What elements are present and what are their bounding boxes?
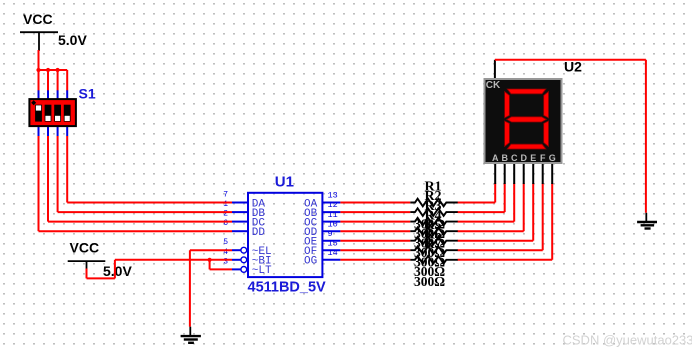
- resistor R1: [410, 199, 458, 207]
- U1 pin 1 DB stub: [232, 211, 248, 213]
- U1 pin 11 OC stub: [322, 221, 340, 223]
- wire branch to ~LT: [210, 268, 232, 270]
- U1 pin 7 DA stub: [232, 202, 248, 204]
- resistor R7: [410, 256, 458, 264]
- svg-text:S1: S1: [79, 86, 96, 102]
- display segment B: [544, 92, 549, 118]
- wire S1 pin4 to U1: [67, 202, 232, 204]
- svg-text:2: 2: [223, 210, 228, 219]
- display pin stub A: [494, 164, 496, 185]
- svg-text:VCC: VCC: [70, 240, 100, 256]
- svg-text:A: A: [492, 153, 499, 163]
- resistor value 300ohm R5: [414, 255, 445, 270]
- display U2 CK pin stub: [494, 60, 496, 79]
- U1 pin 10 OD stub: [322, 230, 340, 232]
- resistor label R7: [424, 237, 441, 252]
- power VCC source bottom: [68, 240, 133, 280]
- op IC U1 4511BD_5V body: [248, 193, 322, 277]
- ground symbol right: [637, 213, 657, 229]
- resistor R6: [410, 246, 458, 254]
- U1 pin number 14: [328, 248, 338, 258]
- DIP switch S1: [29, 99, 76, 126]
- wire S1 pin2 vertical: [47, 136, 49, 222]
- wire R5 to display pin E: [458, 183, 534, 240]
- svg-text:CSDN @yuewutao233: CSDN @yuewutao233: [563, 333, 692, 348]
- wire branch down: [209, 260, 211, 270]
- svg-text:7: 7: [223, 191, 228, 200]
- svg-text:15: 15: [328, 238, 338, 248]
- label S1: [79, 86, 96, 102]
- svg-text:C: C: [511, 153, 518, 163]
- U1 pin name OB: [304, 208, 318, 220]
- resistor label R2: [424, 189, 441, 204]
- resistor value 300ohm R1: [414, 217, 445, 232]
- S1 pin stub top 4: [66, 90, 68, 98]
- U1 pin name ~BI: [252, 256, 272, 268]
- svg-text:U1: U1: [275, 174, 294, 191]
- U1 pin name OD: [304, 227, 318, 239]
- display segment G: [507, 117, 547, 122]
- U1 pin name DB: [252, 208, 266, 220]
- display pin stub E: [532, 164, 534, 185]
- display pin stub C: [513, 164, 515, 185]
- U1 pin 12 OB stub: [322, 211, 340, 213]
- svg-text:6: 6: [223, 219, 228, 228]
- U1 pin 2 DC stub: [232, 221, 248, 223]
- S1 pin stub top 1: [38, 90, 40, 98]
- svg-text:B: B: [501, 153, 508, 163]
- junction node ~BI/~LT: [208, 258, 212, 262]
- wire U1 OD to R4: [340, 230, 410, 232]
- U1 pin 13 OA stub: [322, 202, 340, 204]
- U1 pin number 7: [223, 191, 228, 200]
- label 4511BD_5V: [248, 280, 327, 296]
- svg-text:13: 13: [328, 191, 338, 201]
- wire R7 to display pin G: [458, 183, 553, 259]
- resistor value 300ohm R2: [414, 226, 445, 241]
- U1 pin number 9: [328, 229, 333, 239]
- junction: [36, 68, 40, 72]
- U1 pin 5 ~EL stub with bubble: [232, 247, 247, 253]
- resistor label R3: [424, 199, 441, 214]
- U1 pin name OG: [304, 256, 317, 268]
- svg-text:5: 5: [223, 238, 228, 247]
- U1 pin number 12: [328, 200, 338, 210]
- resistor value 300ohm R3: [414, 236, 445, 251]
- wire S1 top feed 1: [38, 70, 40, 91]
- U1 pin 6 DD stub: [232, 230, 248, 232]
- resistor label R1: [424, 180, 441, 195]
- wire S1 pin1 to U1: [39, 230, 233, 232]
- U1 pin number 6: [223, 219, 228, 228]
- wire U1 OA to R1: [340, 202, 410, 204]
- U1 pin 9 OE stub: [322, 240, 340, 242]
- svg-text:12: 12: [328, 200, 338, 210]
- power VCC source top: [20, 11, 87, 51]
- wire VCC branch horizontal: [39, 69, 68, 71]
- display pin stub F: [542, 164, 544, 185]
- U1 pin 14 OG stub: [322, 259, 340, 261]
- resistor value 300ohm R7: [414, 274, 445, 289]
- svg-text:D: D: [520, 153, 527, 163]
- label U1: [275, 174, 294, 191]
- svg-text:OG: OG: [304, 256, 317, 268]
- display segment F: [505, 92, 510, 118]
- resistor R5: [410, 237, 458, 245]
- S1 pin stub bottom 2: [47, 127, 49, 136]
- wire S1 pin1 vertical: [38, 136, 40, 231]
- svg-text:CK: CK: [486, 80, 501, 91]
- U1 pin name DC: [252, 217, 266, 229]
- junction: [56, 68, 60, 72]
- svg-text:5.0V: 5.0V: [58, 32, 87, 48]
- svg-text:~LT: ~LT: [252, 265, 272, 277]
- S1 pin stub top 2: [47, 90, 49, 98]
- wire ~EL to ground riser: [190, 249, 232, 251]
- wire VCC2 horizontal low: [87, 277, 115, 279]
- wire VCC2 to ~BI: [115, 259, 232, 261]
- svg-text:U2: U2: [564, 59, 582, 75]
- U1 pin number 3: [223, 257, 228, 266]
- U1 pin 3 ~LT stub with bubble: [232, 267, 247, 273]
- wire CK to ground top: [495, 59, 646, 61]
- junction: [46, 68, 50, 72]
- svg-text:3: 3: [223, 257, 228, 266]
- wire U1 OG to R7: [340, 259, 410, 261]
- svg-text:DD: DD: [252, 227, 266, 239]
- display pin stub D: [523, 164, 525, 185]
- svg-text:G: G: [549, 153, 556, 163]
- svg-text:R7: R7: [424, 237, 441, 252]
- resistor value 300ohm R4: [414, 245, 445, 260]
- resistor R3: [410, 218, 458, 226]
- U1 pin name ~EL: [252, 246, 272, 258]
- wire U1 OC to R3: [340, 221, 410, 223]
- U1 pin number 2: [223, 210, 228, 219]
- wire R6 to display pin F: [458, 183, 543, 250]
- resistor value 300ohm R6: [414, 264, 445, 279]
- svg-text:9: 9: [328, 229, 333, 239]
- wire VCC2 stem: [86, 269, 88, 279]
- U1 pin name OE: [304, 237, 318, 249]
- wire R3 to display pin C: [458, 183, 515, 221]
- wire R1 to display pin A: [458, 183, 496, 202]
- S1 pin stub top 3: [57, 90, 59, 98]
- U1 pin number 11: [328, 210, 338, 220]
- svg-text:F: F: [540, 153, 546, 163]
- S1 pin stub bottom 1: [38, 127, 40, 136]
- display segment A: [507, 89, 546, 94]
- svg-text:4511BD_5V: 4511BD_5V: [248, 280, 327, 296]
- U1 pin number 1: [223, 200, 228, 209]
- S1 pin stub bottom 3: [57, 127, 59, 136]
- svg-text:4: 4: [223, 248, 228, 257]
- svg-text:300Ω: 300Ω: [414, 274, 445, 289]
- wire U1 OB to R2: [340, 211, 410, 213]
- U1 pin name OA: [304, 198, 318, 210]
- U1 pin number 15: [328, 238, 338, 248]
- display segment D: [507, 144, 546, 149]
- wire S1 pin3 to U1: [58, 211, 232, 213]
- svg-text:11: 11: [328, 210, 338, 220]
- wire S1 top feed 2: [47, 70, 49, 91]
- resistor label R5: [424, 218, 441, 233]
- wire R4 to display pin D: [458, 183, 524, 231]
- wire S1 pin2 to U1: [48, 221, 232, 223]
- resistor label R6: [424, 227, 441, 242]
- wire S1 top feed 4: [66, 70, 68, 91]
- resistor R2: [410, 208, 458, 216]
- display pin stub G: [551, 164, 553, 185]
- watermark: [563, 333, 692, 348]
- display pin stub B: [504, 164, 506, 185]
- resistor label R4: [424, 208, 441, 223]
- svg-text:14: 14: [328, 248, 338, 258]
- U1 pin name OC: [304, 217, 318, 229]
- U1 pin name DD: [252, 227, 266, 239]
- U1 pin number 10: [328, 219, 338, 229]
- wire S1 pin3 vertical: [57, 136, 59, 212]
- display segment E: [505, 121, 510, 146]
- svg-text:5.0V: 5.0V: [103, 263, 132, 279]
- U1 pin number 13: [328, 191, 338, 201]
- svg-text:E: E: [530, 153, 536, 163]
- wire ground drop right: [645, 60, 647, 213]
- U1 pin 4 ~BI stub with bubble: [232, 257, 247, 263]
- wire S1 top feed 3: [57, 70, 59, 91]
- wire R2 to display pin B: [458, 183, 505, 212]
- U1 pin name DA: [252, 198, 266, 210]
- U1 pin number 5: [223, 238, 228, 247]
- wire VCC stem to S1: [38, 50, 40, 70]
- svg-text:VCC: VCC: [23, 11, 53, 27]
- ground symbol left: [181, 327, 201, 343]
- U1 pin name ~LT: [252, 265, 272, 277]
- wire VCC2 riser: [114, 260, 116, 279]
- U1 pin name OF: [304, 246, 317, 258]
- display segment C: [544, 121, 549, 146]
- label U2: [564, 59, 582, 75]
- wire S1 pin4 vertical: [66, 136, 68, 203]
- U1 pin number 4: [223, 248, 228, 257]
- wire U1 OE to R5: [340, 240, 410, 242]
- resistor R4: [410, 227, 458, 235]
- svg-text:10: 10: [328, 219, 338, 229]
- S1 pin stub bottom 4: [66, 127, 68, 136]
- svg-text:1: 1: [223, 200, 228, 209]
- wire U1 OF to R6: [340, 249, 410, 251]
- wire ground riser: [189, 250, 191, 327]
- seven segment display U2 body: [485, 79, 562, 163]
- U1 pin 15 OF stub: [322, 249, 340, 251]
